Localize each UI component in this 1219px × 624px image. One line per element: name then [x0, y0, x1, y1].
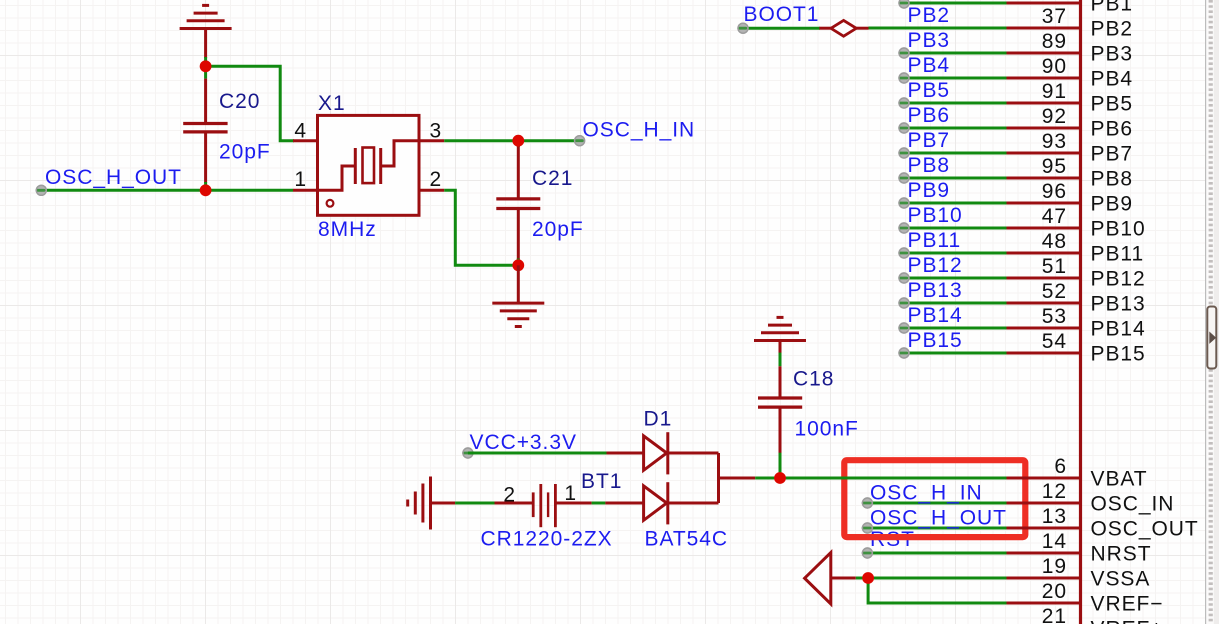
svg-text:89: 89 — [1042, 30, 1067, 53]
svg-text:PB13: PB13 — [1091, 293, 1146, 316]
svg-text:PB13: PB13 — [908, 279, 963, 302]
svg-text:VCC+3.3V: VCC+3.3V — [470, 431, 577, 454]
svg-text:VREF−: VREF− — [1091, 593, 1164, 616]
svg-text:BAT54C: BAT54C — [645, 528, 729, 551]
svg-text:OSC_OUT: OSC_OUT — [1091, 518, 1199, 541]
svg-text:PB5: PB5 — [908, 79, 951, 102]
svg-text:4: 4 — [294, 120, 307, 143]
svg-text:PB2: PB2 — [908, 4, 951, 27]
svg-text:PB7: PB7 — [1091, 143, 1134, 166]
svg-text:PB15: PB15 — [1091, 343, 1146, 366]
svg-text:NRST: NRST — [1091, 543, 1152, 566]
svg-text:91: 91 — [1042, 80, 1067, 103]
svg-text:OSC_H_IN: OSC_H_IN — [870, 482, 983, 505]
svg-text:20pF: 20pF — [532, 218, 584, 241]
svg-text:96: 96 — [1042, 180, 1067, 203]
svg-text:OSC_H_OUT: OSC_H_OUT — [45, 166, 182, 189]
svg-text:PB7: PB7 — [908, 129, 951, 152]
svg-text:53: 53 — [1042, 305, 1067, 328]
svg-text:51: 51 — [1042, 255, 1067, 278]
svg-text:BT1: BT1 — [581, 470, 622, 493]
svg-text:PB4: PB4 — [1091, 68, 1134, 91]
svg-text:PB12: PB12 — [1091, 268, 1146, 291]
svg-text:2: 2 — [503, 484, 516, 507]
svg-text:92: 92 — [1042, 105, 1067, 128]
svg-text:14: 14 — [1042, 530, 1067, 553]
svg-text:90: 90 — [1042, 55, 1067, 78]
svg-text:PB9: PB9 — [1091, 193, 1134, 216]
svg-text:21: 21 — [1042, 605, 1067, 624]
svg-text:PB10: PB10 — [908, 204, 963, 227]
svg-text:VBAT: VBAT — [1091, 468, 1148, 491]
svg-text:8MHz: 8MHz — [318, 218, 377, 241]
svg-text:PB4: PB4 — [908, 54, 951, 77]
svg-text:PB2: PB2 — [1091, 18, 1134, 41]
svg-text:PB11: PB11 — [1091, 243, 1145, 266]
svg-text:95: 95 — [1042, 155, 1067, 178]
svg-text:13: 13 — [1042, 505, 1067, 528]
svg-text:C18: C18 — [793, 368, 834, 391]
svg-text:VREF+: VREF+ — [1091, 618, 1164, 624]
svg-text:C20: C20 — [219, 90, 260, 113]
svg-text:3: 3 — [430, 120, 443, 143]
svg-text:PB12: PB12 — [908, 254, 963, 277]
svg-text:37: 37 — [1042, 5, 1067, 28]
svg-text:93: 93 — [1042, 130, 1067, 153]
svg-text:OSC_H_IN: OSC_H_IN — [583, 119, 696, 142]
svg-text:OSC_IN: OSC_IN — [1091, 493, 1175, 516]
svg-text:PB1: PB1 — [1091, 0, 1134, 16]
svg-text:PB5: PB5 — [1091, 93, 1134, 116]
svg-text:PB14: PB14 — [908, 304, 963, 327]
svg-text:1: 1 — [294, 168, 307, 191]
svg-text:PB15: PB15 — [908, 329, 963, 352]
svg-text:1: 1 — [564, 482, 577, 505]
svg-text:47: 47 — [1042, 205, 1067, 228]
svg-text:OSC_H_OUT: OSC_H_OUT — [870, 507, 1007, 530]
svg-text:19: 19 — [1042, 555, 1067, 578]
svg-text:PB3: PB3 — [908, 29, 951, 52]
svg-text:48: 48 — [1042, 230, 1067, 253]
svg-text:PB9: PB9 — [908, 179, 951, 202]
svg-text:20: 20 — [1042, 580, 1067, 603]
svg-text:52: 52 — [1042, 280, 1067, 303]
svg-text:PB8: PB8 — [908, 154, 951, 177]
svg-text:12: 12 — [1042, 480, 1067, 503]
svg-text:PB11: PB11 — [908, 229, 962, 252]
svg-text:6: 6 — [1054, 455, 1067, 478]
svg-text:20pF: 20pF — [219, 141, 271, 164]
svg-text:BOOT1: BOOT1 — [744, 3, 820, 26]
svg-text:PB3: PB3 — [1091, 43, 1134, 66]
svg-text:PB14: PB14 — [1091, 318, 1146, 341]
svg-text:PB6: PB6 — [1091, 118, 1134, 141]
svg-text:PB8: PB8 — [1091, 168, 1134, 191]
svg-text:2: 2 — [430, 168, 443, 191]
svg-text:C21: C21 — [532, 167, 573, 190]
svg-text:X1: X1 — [318, 92, 346, 115]
svg-text:100nF: 100nF — [795, 418, 859, 441]
svg-text:D1: D1 — [644, 408, 673, 431]
svg-text:VSSA: VSSA — [1091, 568, 1151, 591]
svg-text:PB6: PB6 — [908, 104, 951, 127]
svg-text:PB10: PB10 — [1091, 218, 1146, 241]
svg-text:54: 54 — [1042, 330, 1067, 353]
svg-text:CR1220-2ZX: CR1220-2ZX — [481, 528, 613, 551]
